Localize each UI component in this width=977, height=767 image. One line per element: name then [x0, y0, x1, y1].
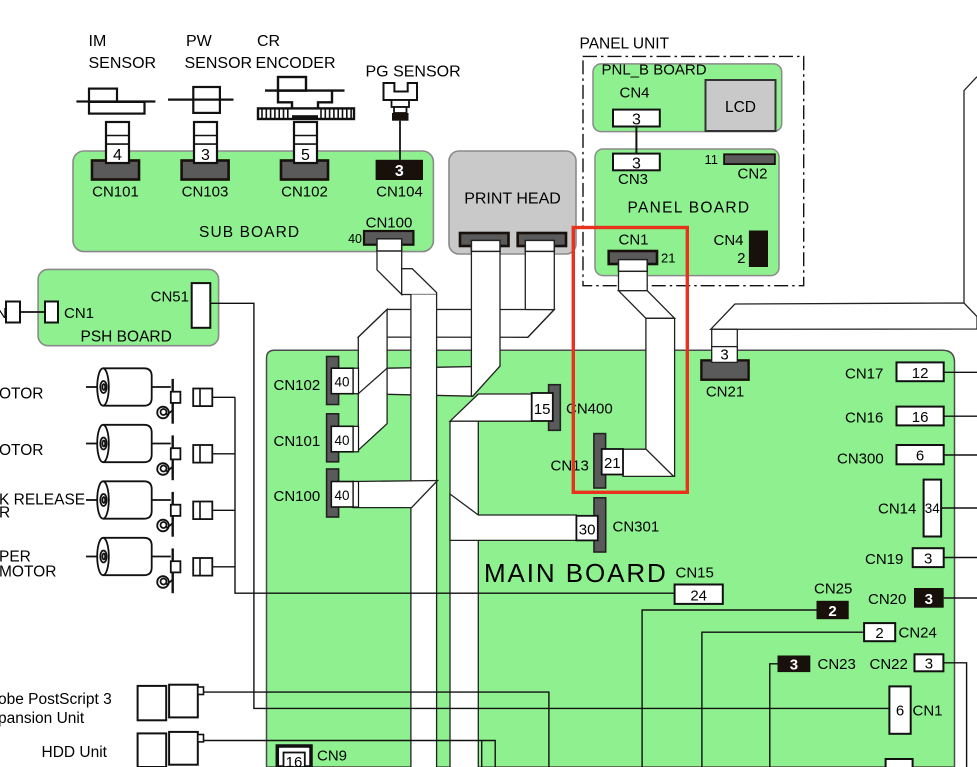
wire ribbon panel jog — [619, 291, 675, 319]
connector CN51 psh board — [192, 283, 211, 328]
connector CN9 (bottom, cut) — [277, 746, 311, 767]
svg-text:15: 15 — [534, 401, 551, 418]
wire CN23 — [770, 664, 778, 767]
svg-text:CN19: CN19 — [865, 551, 903, 568]
svg-text:CR: CR — [257, 33, 280, 50]
svg-text:CN23: CN23 — [818, 656, 856, 673]
svg-text:40: 40 — [334, 375, 349, 390]
svg-text:CN4: CN4 — [714, 232, 744, 249]
connector CN23 (black) — [778, 656, 811, 673]
svg-text:12: 12 — [912, 365, 929, 382]
connector CN101 (sub board) — [92, 161, 139, 180]
wire tab print head left — [471, 240, 500, 251]
svg-text:pansion Unit: pansion Unit — [0, 710, 85, 727]
wire tab SUB CN100 — [377, 239, 402, 251]
PostScript unit connector — [138, 685, 204, 721]
wire ribbon CN21 stack — [712, 329, 738, 362]
svg-text:CN4: CN4 — [620, 85, 650, 102]
connector motor plug — [171, 379, 173, 424]
connector CN16 — [897, 407, 944, 426]
svg-text:3: 3 — [925, 591, 933, 608]
motor PAPER — [86, 538, 171, 575]
motor PF — [86, 425, 171, 462]
wire ribbon B: print head left to CN101 — [358, 366, 499, 396]
svg-text:6: 6 — [896, 703, 904, 720]
svg-text:3: 3 — [632, 112, 641, 129]
svg-text:PW: PW — [186, 33, 213, 50]
wire motor INK RELEASE to trunk — [212, 509, 235, 511]
svg-text:CN13: CN13 — [551, 458, 589, 475]
connector CN101 (main board) — [327, 414, 339, 462]
svg-text:11: 11 — [705, 152, 719, 167]
svg-text:CN102: CN102 — [274, 377, 321, 394]
connector CN20 (black) — [914, 588, 944, 608]
connector CN301 — [594, 498, 606, 552]
svg-text:CN100: CN100 — [366, 215, 413, 232]
motor CR — [86, 368, 171, 405]
wire ribbon print head right strip — [525, 240, 554, 309]
svg-text:2: 2 — [737, 250, 745, 267]
svg-text:2: 2 — [828, 603, 836, 620]
connector CN21 main board — [701, 360, 748, 379]
wire ribbon V1 vertical band — [411, 295, 437, 767]
connector print head left — [460, 233, 509, 246]
wire CN24 — [702, 632, 864, 767]
svg-text:CN16: CN16 — [845, 409, 883, 426]
svg-text:2: 2 — [875, 625, 883, 642]
svg-text:3: 3 — [720, 347, 728, 364]
svg-text:CN15: CN15 — [676, 565, 714, 582]
connector CN25 (black) — [817, 601, 849, 619]
svg-text:CN100: CN100 — [274, 488, 321, 505]
svg-text:PSH BOARD: PSH BOARD — [81, 329, 172, 346]
connector CN103 (sub board) — [182, 161, 229, 180]
wire CN16 — [944, 415, 977, 417]
sub board — [73, 151, 433, 252]
CR encoder symbol — [278, 77, 306, 91]
wire CN19 — [944, 557, 977, 559]
PG sensor symbol — [384, 83, 418, 100]
wire ribbon to CN13 — [623, 449, 674, 476]
main board — [267, 350, 955, 767]
IM sensor symbol — [89, 89, 145, 114]
svg-text:CN1: CN1 — [64, 305, 94, 322]
connector CN3 panel board — [613, 154, 660, 171]
wire motor PF to trunk — [212, 453, 235, 455]
svg-text:40: 40 — [348, 232, 362, 246]
wire ribbon panel CN1 stack — [619, 260, 648, 291]
svg-text:OTOR: OTOR — [0, 442, 44, 459]
svg-text:SUB BOARD: SUB BOARD — [199, 224, 300, 241]
connector CN4 panel board (black) — [749, 231, 768, 268]
svg-text:21: 21 — [661, 251, 675, 266]
wire tab panel CN1 — [619, 260, 648, 272]
motor INK RELEASE — [86, 481, 171, 518]
svg-text:CN21: CN21 — [706, 384, 744, 401]
svg-text:34: 34 — [925, 501, 941, 516]
connector CN2 panel board — [724, 154, 775, 164]
svg-text:CN1: CN1 — [913, 703, 943, 720]
svg-text:40: 40 — [334, 433, 349, 448]
panel unit dashed border — [583, 56, 804, 285]
wire PSH CN51 to main CN1 — [210, 303, 889, 708]
connector CN100 (main board) — [327, 469, 339, 517]
connector motor plug — [171, 492, 173, 537]
svg-text:PRINT HEAD: PRINT HEAD — [464, 191, 561, 208]
connector CN17 — [897, 362, 944, 381]
svg-text:PG SENSOR: PG SENSOR — [366, 64, 461, 81]
svg-text:CN102: CN102 — [281, 184, 328, 201]
wire CN17 — [944, 371, 977, 373]
connector CN24 — [864, 623, 895, 641]
svg-text:4: 4 — [113, 147, 122, 164]
connector CN300 — [897, 445, 944, 464]
ground — [157, 576, 173, 588]
wire PG sensor to CN104 — [399, 121, 401, 160]
connector CN1 panel board — [609, 251, 657, 264]
HDD unit connector — [138, 732, 204, 767]
connector CN14 — [924, 480, 942, 537]
svg-text:3: 3 — [395, 163, 404, 180]
svg-text:CN51: CN51 — [151, 289, 189, 306]
wire ribbon to MAIN CN100 — [353, 481, 437, 508]
ground — [157, 407, 173, 419]
connector CN1 psh board — [6, 302, 20, 323]
panel board — [595, 149, 779, 276]
svg-text:3: 3 — [201, 147, 210, 164]
wire ribbon from SUB CN100 down — [377, 239, 402, 295]
connector motor plug — [171, 548, 173, 593]
wire ribbon band2 from CN400 down — [450, 394, 478, 767]
svg-text:R: R — [0, 505, 10, 522]
svg-text:16: 16 — [912, 409, 929, 426]
svg-text:CN103: CN103 — [182, 184, 229, 201]
connector CN102 (main board) — [327, 357, 339, 405]
svg-text:CN101: CN101 — [274, 433, 321, 450]
svg-text:HDD Unit: HDD Unit — [42, 744, 108, 761]
svg-text:N: N — [0, 305, 7, 322]
wire ribbon A: print head right to CN102 — [358, 309, 554, 337]
lcd — [706, 80, 776, 131]
svg-text:obe PostScript 3: obe PostScript 3 — [0, 691, 112, 708]
wire ribbon CN400 horizontal — [450, 394, 532, 421]
svg-text:3: 3 — [925, 656, 933, 673]
connector CN15 — [675, 585, 723, 604]
wire motor CR to trunk — [212, 396, 235, 398]
red highlight box CN1-CN13 cable — [573, 228, 687, 493]
wire ribbon to CN301 — [450, 494, 576, 540]
svg-text:SENSOR: SENSOR — [89, 55, 157, 72]
wire CN4 to CN3 — [635, 127, 637, 154]
svg-text:CN24: CN24 — [899, 625, 937, 642]
wire motor PAPER to trunk — [212, 566, 235, 568]
wire ribbon right edge band — [964, 77, 977, 303]
wire CN20 — [944, 597, 977, 599]
svg-text:OTOR: OTOR — [0, 386, 44, 403]
ground — [157, 520, 173, 532]
svg-text:CN14: CN14 — [878, 501, 916, 518]
wire ribbon panel band down — [646, 318, 675, 476]
connector CN100 (sub board) — [364, 231, 413, 245]
PW sensor symbol — [193, 87, 220, 113]
svg-text:CN22: CN22 — [870, 656, 908, 673]
svg-text:CN20: CN20 — [868, 591, 906, 608]
connector CN104 (sub board, black) — [376, 160, 423, 180]
connector print head right — [518, 233, 566, 246]
connector CN13 — [594, 434, 606, 488]
svg-text:CN25: CN25 — [814, 581, 852, 598]
svg-text:CN2: CN2 — [738, 166, 768, 183]
connector below CN1 (cut) — [886, 759, 913, 767]
svg-text:16: 16 — [286, 754, 303, 767]
connector CN4 pnl_b board — [613, 110, 660, 127]
svg-text:PANEL BOARD: PANEL BOARD — [628, 200, 751, 217]
connector motor plug — [171, 435, 173, 480]
wire CN25 — [642, 610, 816, 767]
connector CN19 — [913, 548, 944, 567]
svg-text:K RELEASE: K RELEASE — [0, 492, 85, 509]
wire ribbon print head left V2 — [471, 240, 500, 396]
wire tab print head right — [525, 240, 554, 251]
wire ribbon CN21 to top right — [711, 303, 977, 329]
svg-text:CN1: CN1 — [619, 232, 649, 249]
connector CN102 (sub board) — [281, 161, 328, 180]
svg-text:CN9: CN9 — [317, 748, 347, 765]
svg-text:ENCODER: ENCODER — [256, 55, 336, 72]
connector CN22 — [915, 654, 944, 671]
svg-text:24: 24 — [690, 588, 707, 605]
wire CN14 — [941, 507, 977, 509]
svg-text:CN300: CN300 — [837, 451, 884, 468]
connector CN400 — [549, 385, 561, 431]
svg-text:LCD: LCD — [725, 99, 756, 116]
wire CN22 — [943, 663, 966, 767]
svg-text:40: 40 — [334, 488, 349, 503]
svg-text:3: 3 — [924, 551, 932, 568]
svg-text:CN101: CN101 — [92, 184, 139, 201]
svg-text:CN17: CN17 — [845, 366, 883, 383]
wire ribbon jog — [402, 269, 437, 295]
wire PostScript unit — [204, 692, 549, 767]
psh board — [38, 269, 219, 345]
pnl_b board — [593, 64, 782, 132]
svg-text:CN301: CN301 — [613, 519, 660, 536]
svg-text:CN3: CN3 — [618, 171, 648, 188]
svg-text:PANEL UNIT: PANEL UNIT — [580, 36, 670, 53]
svg-text:3: 3 — [790, 657, 798, 674]
wire motors trunk to CN15 — [235, 397, 675, 593]
svg-text:3: 3 — [632, 156, 641, 173]
wire HDD unit — [204, 741, 496, 767]
print head — [449, 151, 576, 254]
svg-text:IM: IM — [89, 33, 107, 50]
svg-text:CN104: CN104 — [376, 184, 423, 201]
connector CN1 (main board right) — [889, 686, 910, 733]
svg-text:MAIN BOARD: MAIN BOARD — [484, 558, 668, 588]
wire CN300 — [944, 454, 977, 456]
svg-text:PNL_B BOARD: PNL_B BOARD — [602, 62, 707, 79]
svg-text:6: 6 — [916, 448, 924, 465]
svg-text:SENSOR: SENSOR — [185, 55, 253, 72]
svg-text:21: 21 — [604, 455, 621, 472]
svg-text:5: 5 — [301, 147, 310, 164]
svg-text:MOTOR: MOTOR — [0, 564, 56, 581]
ground — [157, 463, 173, 475]
wire ribbon fold strip at CN102/CN101 — [358, 309, 387, 450]
svg-text:30: 30 — [579, 522, 596, 539]
